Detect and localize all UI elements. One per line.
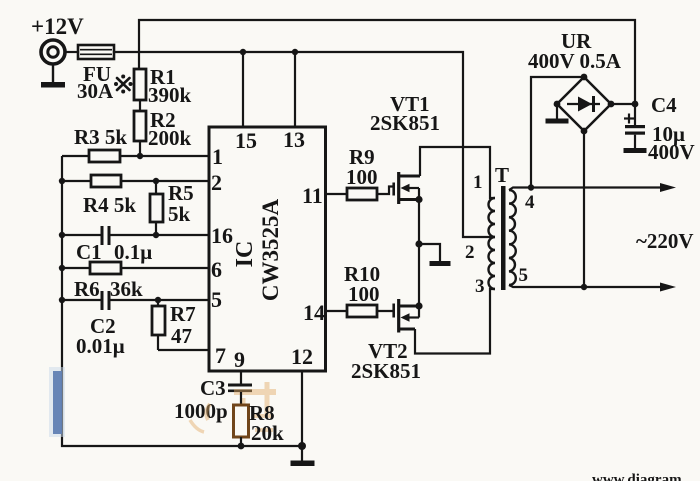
svg-text:5k: 5k — [168, 202, 191, 226]
wire R2 to pin1 row — [139, 141, 141, 157]
node R8-bottom rail — [238, 443, 245, 450]
svg-text:11: 11 — [302, 183, 323, 208]
ground (sources) — [419, 244, 440, 261]
connector J1 (+12V input jack) — [41, 40, 65, 64]
svg-text:30A: 30A — [77, 79, 114, 103]
node bridge right — [608, 101, 615, 108]
svg-text:20k: 20k — [251, 421, 284, 445]
wire R8 to bottom rail — [240, 437, 242, 446]
resistor R7 — [152, 306, 165, 335]
wire pin1 row — [62, 155, 209, 157]
resistor R1 — [134, 69, 146, 100]
wire output row pin5 with arrow — [509, 285, 662, 287]
svg-text:47: 47 — [171, 324, 192, 348]
wire pin15 to rail — [242, 52, 244, 127]
svg-text:2SK851: 2SK851 — [351, 359, 421, 383]
resistor R8 — [234, 405, 249, 437]
wire C3 to R8 — [240, 392, 242, 405]
wire bridge right to C4 rail — [611, 103, 635, 105]
transformer primary winding — [489, 198, 496, 289]
svg-text:C3: C3 — [200, 376, 226, 400]
svg-text:100: 100 — [348, 282, 380, 306]
svg-text:2SK851: 2SK851 — [370, 111, 440, 135]
wire bridge top to row4 — [531, 77, 584, 187]
wire C4 to ground — [634, 135, 636, 148]
svg-text:1: 1 — [212, 144, 223, 169]
wire R1 to R2 — [139, 100, 141, 111]
wire pin11 row to VT1 gate — [325, 187, 393, 195]
node R5-row16 — [153, 232, 159, 238]
svg-text:12: 12 — [291, 344, 313, 369]
transistor Q1 VT1 MOSFET — [394, 172, 420, 204]
svg-text:C4: C4 — [651, 93, 677, 117]
svg-text:400V 0.5A: 400V 0.5A — [528, 49, 622, 73]
scan artifact blue strip — [49, 367, 65, 437]
svg-text:IC: IC — [232, 241, 258, 268]
svg-text:T: T — [495, 163, 509, 187]
wire feedback HV rail — [139, 20, 635, 125]
capacitor C2 — [101, 291, 104, 310]
wire pin9 to C3 — [240, 371, 242, 384]
svg-text:R7: R7 — [170, 302, 196, 326]
node row4-bridge feed — [528, 184, 534, 190]
wire pin6 row — [62, 267, 209, 269]
svg-text:1: 1 — [473, 172, 483, 193]
fuse FU — [78, 45, 114, 59]
svg-text:5: 5 — [211, 287, 222, 312]
resistor R3 — [89, 150, 120, 162]
node bridge left — [554, 101, 561, 108]
resistor R4 — [91, 175, 121, 187]
wire pin14 row to VT2 gate — [325, 310, 393, 312]
node row5-bridge feed — [581, 284, 587, 290]
svg-text:13: 13 — [283, 127, 305, 152]
svg-text:+12V: +12V — [31, 14, 84, 39]
svg-text:5: 5 — [519, 265, 529, 286]
resistor R6 — [90, 262, 121, 274]
svg-text:R4 5k: R4 5k — [83, 193, 136, 217]
node bridge top — [581, 74, 588, 81]
svg-text:15: 15 — [235, 128, 257, 153]
transformer secondary winding — [509, 190, 516, 285]
svg-text:R6: R6 — [74, 277, 100, 301]
wire pin2 row — [62, 180, 209, 182]
svg-text:400V: 400V — [648, 140, 695, 164]
node VT1 source — [415, 196, 422, 203]
svg-text:390k: 390k — [148, 83, 192, 107]
wire VT1 drain to transformer pin1 — [420, 147, 495, 198]
svg-text:4: 4 — [525, 192, 535, 213]
svg-text:6: 6 — [211, 257, 222, 282]
svg-text:16: 16 — [211, 223, 233, 248]
watermark strokes — [190, 382, 276, 432]
svg-text:CW3525A: CW3525A — [258, 199, 283, 302]
node row5-left — [59, 297, 65, 303]
transistor Q2 VT2 MOSFET — [394, 299, 419, 333]
svg-text:3: 3 — [475, 276, 485, 297]
resistor R9 — [347, 188, 377, 200]
node row6-left — [59, 265, 65, 271]
svg-text:C1: C1 — [76, 240, 102, 264]
svg-text:100: 100 — [346, 165, 378, 189]
resistor R10 — [347, 305, 377, 317]
node pin12-bottom rail — [298, 442, 306, 450]
wire R5 stubs — [155, 181, 157, 235]
wire VT1 source down to VT2 source — [418, 200, 420, 307]
node rail-pin15 — [240, 49, 246, 55]
node row16-left — [59, 232, 65, 238]
asterisk reference mark — [117, 78, 130, 90]
svg-text:2: 2 — [465, 242, 475, 263]
resistor R2 — [134, 111, 146, 141]
wire VT2 drain to transformer pin3 — [415, 289, 495, 354]
svg-text:36k: 36k — [110, 277, 143, 301]
svg-text:200k: 200k — [148, 126, 192, 150]
capacitor C4 — [625, 125, 645, 128]
capacitor C3 — [228, 384, 252, 387]
node R7-row5 — [155, 297, 161, 303]
node rail-pin13 — [292, 49, 298, 55]
wire pin16 row — [62, 234, 209, 236]
wire pin13 to rail — [294, 52, 296, 127]
bridge rectifier UR — [557, 77, 611, 131]
wire ground return rail (left and bottom) — [62, 156, 302, 446]
transformer T core — [501, 186, 506, 290]
wire R7 stubs — [157, 300, 159, 350]
node R5-row2 — [153, 178, 159, 184]
ground (bridge left) — [556, 104, 558, 119]
node bridge bottom — [581, 128, 588, 135]
node VT2 source — [415, 302, 422, 309]
wire pin12 to ground — [301, 371, 303, 461]
ground (input jack) — [52, 65, 54, 83]
node row2-left — [59, 178, 65, 184]
node R2-row1 — [137, 153, 143, 159]
wire bridge bottom to row5 — [583, 131, 585, 287]
svg-text:0.1μ: 0.1μ — [114, 240, 152, 264]
node HV rail-bridge — [632, 101, 639, 108]
wire +12V rail to transformer center tap — [114, 52, 495, 237]
svg-text:2: 2 — [211, 170, 222, 195]
ground (pin 12) — [291, 461, 315, 467]
svg-text:14: 14 — [303, 300, 325, 325]
svg-text:7: 7 — [215, 343, 226, 368]
svg-text:9: 9 — [234, 347, 245, 372]
wire pin5 row — [62, 299, 209, 301]
svg-text:R3 5k: R3 5k — [74, 125, 127, 149]
svg-text:~220V: ~220V — [636, 229, 694, 253]
capacitor C1 — [101, 226, 104, 245]
svg-text:www.diagram: www.diagram — [592, 472, 682, 481]
plus sign C4 — [624, 114, 634, 124]
op-amp IC U1 CW3525A box — [209, 127, 326, 371]
svg-text:1000p: 1000p — [174, 399, 228, 423]
svg-text:0.01μ: 0.01μ — [76, 334, 125, 358]
wire pin7 row — [158, 349, 209, 351]
ground (C4) — [624, 148, 647, 153]
wire jack to fuse — [66, 51, 79, 53]
resistor R5 — [150, 194, 163, 222]
node sources junction — [415, 240, 422, 247]
diode inside bridge — [567, 103, 600, 105]
wire output row pin4 with arrow — [509, 188, 662, 191]
